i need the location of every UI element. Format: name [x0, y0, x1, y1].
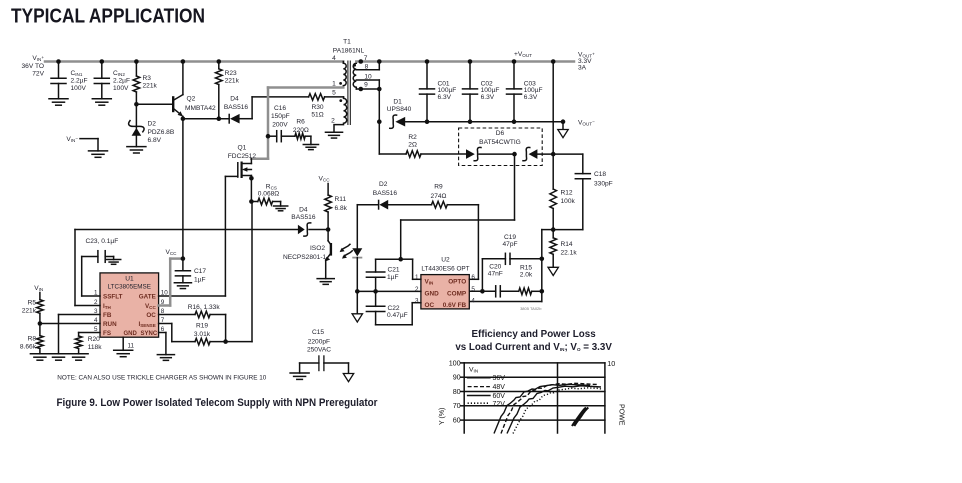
svg-text:GND: GND	[425, 290, 440, 297]
capacitor C16	[268, 135, 277, 137]
junction D1 node	[377, 119, 382, 124]
svg-text:GND: GND	[124, 331, 138, 337]
svg-text:R15: R15	[520, 265, 532, 272]
junction Q1 source	[249, 176, 254, 181]
ground D2	[127, 146, 146, 148]
svg-text:R11: R11	[335, 196, 347, 203]
junction CIN2	[100, 59, 105, 64]
svg-text:C17: C17	[194, 268, 206, 275]
svg-text:VIN: VIN	[34, 285, 43, 292]
junction C21 top node	[398, 257, 403, 262]
svg-text:221k: 221k	[143, 83, 158, 90]
resistor R19	[195, 338, 210, 345]
svg-text:10: 10	[607, 359, 615, 368]
svg-text:VCC: VCC	[165, 249, 177, 256]
svg-text:6.3V: 6.3V	[438, 94, 452, 101]
svg-text:1: 1	[332, 80, 336, 87]
svg-text:VCC: VCC	[318, 176, 330, 183]
capacitor C03	[512, 59, 517, 64]
wire Q1 source down	[250, 178, 252, 201]
svg-text:OC: OC	[425, 302, 435, 309]
svg-text:60: 60	[453, 416, 461, 425]
wire VCC pin (gray)	[159, 304, 171, 307]
svg-text:T1: T1	[343, 39, 351, 46]
junction C01 bottom	[425, 119, 430, 124]
diode D6 BAT54CWTIG dashed box	[459, 128, 543, 166]
svg-text:C18: C18	[594, 171, 606, 178]
junction pin8 rail	[377, 59, 382, 64]
svg-text:48V: 48V	[493, 384, 506, 391]
svg-text:C23, 0.1µF: C23, 0.1µF	[86, 238, 119, 245]
svg-text:60V: 60V	[493, 393, 506, 400]
svg-text:SYNC: SYNC	[141, 331, 158, 337]
svg-text:LTC3805EMSE: LTC3805EMSE	[108, 283, 151, 290]
junction C16 tap	[266, 134, 271, 139]
svg-text:D2: D2	[379, 181, 388, 188]
capacitor C19	[504, 253, 506, 264]
junction divider node	[551, 227, 556, 232]
resistor R20	[79, 332, 100, 334]
transformer T1 core	[347, 61, 349, 126]
capacitor C01	[425, 59, 430, 64]
ground CIN1	[49, 98, 68, 100]
svg-text:90: 90	[453, 373, 461, 382]
svg-text:BAS516: BAS516	[291, 214, 316, 221]
svg-text:6.3V: 6.3V	[524, 94, 538, 101]
svg-text:D1: D1	[393, 99, 402, 106]
svg-text:VIN: VIN	[425, 278, 435, 285]
svg-text:U1: U1	[125, 276, 134, 283]
svg-text:R9: R9	[434, 184, 443, 191]
resistor R12	[552, 154, 554, 189]
svg-text:C15: C15	[312, 329, 324, 336]
svg-text:C16: C16	[274, 105, 286, 112]
svg-text:+VOUT: +VOUT	[514, 51, 532, 58]
svg-text:R12: R12	[561, 190, 573, 197]
wire COMP node vertical	[481, 259, 483, 292]
resistor R15	[519, 288, 532, 295]
svg-text:C21: C21	[388, 267, 400, 274]
svg-text:0.47µF: 0.47µF	[387, 312, 408, 319]
resistor R16	[159, 314, 195, 316]
optocoupler ISO2 NECPS2801-1 LED	[356, 205, 358, 249]
svg-text:ISO2: ISO2	[310, 245, 325, 252]
wire VOUT+ sense down	[552, 62, 554, 155]
svg-text:BAS516: BAS516	[224, 104, 249, 111]
capacitor C20	[469, 290, 495, 292]
wire C19 row	[482, 258, 505, 260]
svg-text:100V: 100V	[71, 85, 87, 92]
svg-text:1µF: 1µF	[387, 274, 399, 281]
wire D6 center down to U2 side	[514, 154, 516, 220]
ground C15 secondary (open)	[343, 374, 353, 382]
transformer T1 secondary winding pins 7-9	[353, 62, 356, 90]
svg-text:RCS: RCS	[266, 183, 277, 190]
capacitor CIN2	[101, 62, 103, 79]
transistor Q2 MMBTA42	[182, 62, 184, 95]
svg-text:R14: R14	[561, 241, 573, 248]
svg-text:8.66k: 8.66k	[20, 343, 37, 350]
svg-text:6.8V: 6.8V	[148, 137, 162, 144]
ground FB	[49, 353, 68, 355]
T1 primary phase dot pin1	[339, 82, 342, 85]
wire T1 pin10 bracket	[356, 79, 379, 81]
capacitor C02	[468, 59, 473, 64]
ground R6	[303, 144, 318, 146]
ground VIN-	[89, 150, 108, 152]
svg-text:CIN1: CIN1	[71, 70, 83, 77]
capacitor C22	[375, 291, 377, 306]
ISO2 light arrows	[341, 244, 350, 250]
svg-text:C19: C19	[504, 234, 516, 241]
ground R20	[69, 353, 88, 355]
svg-text:MMBTA42: MMBTA42	[185, 105, 216, 112]
junction COMP node	[480, 289, 485, 294]
wire VOUT- rail	[427, 121, 563, 123]
graph power loss curve	[572, 408, 586, 427]
wire U1 GND pin 11	[122, 337, 124, 350]
svg-text:vs Load Current and VIN; VO =: vs Load Current and VIN; VO = 3.3V	[455, 342, 612, 353]
junction R23 top	[217, 59, 222, 64]
capacitor C17	[182, 259, 184, 271]
resistor R2	[378, 122, 380, 154]
svg-text:2.0k: 2.0k	[520, 272, 533, 279]
svg-text:SSFLT: SSFLT	[103, 293, 123, 300]
T1 secondary phase dot pin7	[353, 64, 356, 67]
junction CIN1	[56, 59, 61, 64]
capacitor C21	[376, 258, 401, 260]
svg-text:ISENSE: ISENSE	[138, 321, 155, 328]
wire T1 pin8 bracket	[356, 69, 379, 71]
svg-text:R3: R3	[143, 75, 152, 82]
junction Q2 base node	[134, 102, 139, 107]
svg-text:COMP: COMP	[447, 290, 467, 297]
svg-text:3A: 3A	[578, 64, 587, 71]
resistor R30	[252, 96, 309, 98]
svg-text:150pF: 150pF	[271, 113, 290, 120]
svg-text:51Ω: 51Ω	[311, 111, 323, 118]
wire VOUT+ rail	[356, 60, 574, 63]
svg-text:UPS840: UPS840	[387, 106, 412, 113]
svg-text:6.3V: 6.3V	[481, 94, 495, 101]
svg-text:11: 11	[128, 342, 135, 349]
svg-text:BAT54CWTIG: BAT54CWTIG	[479, 139, 521, 146]
junction RCS node	[249, 199, 254, 204]
svg-text:22.1k: 22.1k	[561, 249, 578, 256]
svg-text:Efficiency and Power Loss: Efficiency and Power Loss	[472, 329, 597, 340]
T1 primary phase dot pin5	[339, 99, 342, 102]
wire GATE to Q1	[159, 295, 226, 297]
svg-text:ITH: ITH	[103, 303, 112, 310]
op-amp U2 LT4430ES6	[421, 275, 469, 309]
wire T1 pin9	[356, 88, 379, 90]
svg-text:36V TO: 36V TO	[22, 63, 44, 70]
wire FB to ground	[59, 314, 101, 316]
junction C03 bottom	[512, 119, 517, 124]
svg-text:4: 4	[332, 55, 336, 62]
wire secondary return to D1	[378, 89, 380, 122]
resistor R14	[552, 230, 554, 238]
controller U1 LTC3805EMSE	[100, 273, 159, 337]
diode D6 left half	[466, 149, 475, 159]
wire LED ground (open)	[356, 291, 358, 313]
svg-text:RUN: RUN	[103, 321, 117, 328]
svg-text:2.2µF: 2.2µF	[71, 78, 88, 85]
svg-text:D6: D6	[496, 130, 505, 137]
graph efficiency curves	[494, 384, 590, 433]
wire ISENSE jog	[159, 323, 172, 325]
svg-text:10: 10	[364, 74, 372, 81]
svg-text:FS: FS	[103, 330, 111, 337]
svg-text:5: 5	[471, 286, 475, 293]
svg-text:47pF: 47pF	[502, 241, 517, 248]
junction D6 output	[551, 152, 556, 157]
svg-text:221k: 221k	[22, 308, 37, 315]
wire T1 pin 1 to Q1 drain (gray)	[268, 86, 343, 89]
graph frame and gridlines	[464, 362, 605, 364]
svg-text:3.01k: 3.01k	[194, 331, 211, 338]
svg-text:2200pF: 2200pF	[308, 339, 330, 346]
wire RUN	[40, 323, 100, 325]
svg-text:R23: R23	[225, 70, 237, 77]
svg-text:0.6V FB: 0.6V FB	[443, 302, 467, 309]
svg-text:C22: C22	[388, 305, 400, 312]
svg-text:LT4430ES6 OPT: LT4430ES6 OPT	[421, 265, 469, 272]
svg-text:R6: R6	[296, 119, 305, 126]
svg-text:8: 8	[365, 63, 369, 70]
svg-text:PDZ6.8B: PDZ6.8B	[148, 129, 175, 136]
junction pin10	[377, 87, 382, 92]
ground C23	[106, 259, 120, 261]
svg-text:CIN2: CIN2	[113, 70, 125, 77]
svg-text:80: 80	[453, 387, 461, 396]
wire GND row	[357, 290, 421, 292]
wire VIN- stub	[80, 138, 98, 140]
svg-text:D4: D4	[230, 95, 239, 102]
svg-text:BAS516: BAS516	[373, 190, 398, 197]
svg-text:OPTO: OPTO	[448, 278, 466, 285]
svg-text:1µF: 1µF	[194, 276, 206, 283]
svg-text:Figure 9. Low Power Isolated T: Figure 9. Low Power Isolated Telecom Sup…	[57, 397, 379, 409]
junction R3 top	[134, 59, 139, 64]
junction LED gnd node	[355, 289, 360, 294]
svg-text:OC: OC	[146, 312, 156, 319]
ground CIN2	[92, 98, 111, 100]
junction C02 bottom	[468, 119, 473, 124]
ground ISO2 emitter	[317, 278, 334, 280]
svg-text:220Ω: 220Ω	[293, 127, 309, 134]
ground SYNC	[157, 354, 174, 356]
svg-text:R16, 1.33k: R16, 1.33k	[188, 304, 221, 311]
ground R14 (open)	[548, 267, 558, 275]
junction D6 center	[512, 152, 517, 157]
svg-text:C20: C20	[489, 264, 501, 271]
svg-text:R5: R5	[28, 299, 37, 306]
junction Q2 emitter node	[181, 116, 186, 121]
junction C21 bottom	[373, 289, 378, 294]
ground RCS	[273, 205, 287, 207]
svg-text:R8: R8	[28, 335, 37, 342]
svg-text:3805 TA02b: 3805 TA02b	[520, 306, 542, 311]
ground C17	[174, 282, 191, 284]
svg-text:U2: U2	[441, 256, 450, 263]
wire sense line to RCS	[226, 341, 252, 343]
resistor R5	[39, 293, 41, 300]
svg-text:R2: R2	[408, 134, 417, 141]
svg-text:Y (%): Y (%)	[439, 408, 446, 425]
svg-text:9: 9	[364, 82, 368, 89]
wire U2 pin1 VIN	[401, 258, 413, 260]
wire Q2 emitter down to VCC node	[182, 119, 184, 259]
capacitor CIN1	[58, 62, 60, 79]
ground C15 primary	[290, 372, 309, 374]
junction C19 right	[540, 257, 545, 262]
svg-text:36V: 36V	[493, 375, 506, 382]
junction Q2 collector rail	[181, 59, 186, 64]
svg-text:VCC: VCC	[145, 303, 157, 310]
svg-text:100k: 100k	[561, 198, 576, 205]
svg-text:330pF: 330pF	[594, 180, 613, 187]
svg-text:200V: 200V	[272, 122, 288, 129]
junction ITH pullup node	[326, 227, 331, 232]
svg-text:250VAC: 250VAC	[307, 347, 331, 354]
junction pin7 rail	[359, 59, 364, 64]
resistor R3	[135, 62, 137, 77]
ground T1 pin 2	[325, 131, 342, 133]
resistor RCS	[258, 198, 273, 205]
junction pin9	[359, 87, 364, 92]
wire OPTO pin6 from R9	[469, 278, 478, 280]
svg-text:NECPS2801-1: NECPS2801-1	[283, 254, 327, 261]
svg-text:PA1861NL: PA1861NL	[333, 47, 365, 54]
junction VOUT+ sense	[551, 59, 556, 64]
svg-text:72V: 72V	[32, 71, 44, 78]
wire D4 up to R30	[251, 97, 253, 119]
svg-text:D4: D4	[299, 206, 308, 213]
junction R23 bottom	[217, 116, 222, 121]
diode D4 BAS516 (aux winding)	[228, 114, 230, 124]
resistor R6	[281, 135, 295, 137]
svg-text:221k: 221k	[225, 77, 240, 84]
svg-text:47nF: 47nF	[488, 271, 503, 278]
ground VOUT- (open)	[562, 122, 564, 130]
svg-text:R20: R20	[88, 336, 100, 343]
wire SYNC to ground	[159, 332, 166, 334]
svg-text:POWE: POWE	[618, 404, 625, 426]
svg-text:GATE: GATE	[139, 293, 156, 300]
resistor R8	[39, 324, 41, 336]
svg-text:VIN: VIN	[469, 367, 478, 374]
svg-text:2Ω: 2Ω	[408, 141, 417, 148]
wire FB bus to pin4	[541, 259, 543, 302]
svg-text:D2: D2	[148, 121, 157, 128]
svg-text:FB: FB	[103, 312, 112, 319]
svg-text:2: 2	[331, 117, 335, 124]
wire Q2 emitter to D4	[183, 118, 229, 120]
svg-text:0.068Ω: 0.068Ω	[258, 191, 280, 198]
svg-text:274Ω: 274Ω	[431, 193, 447, 200]
svg-text:6.8k: 6.8k	[335, 205, 348, 212]
wire FB jog from divider	[542, 229, 553, 231]
resistor R23	[218, 62, 220, 69]
ground R8	[30, 353, 49, 355]
svg-text:100V: 100V	[113, 85, 129, 92]
svg-text:Q2: Q2	[187, 96, 196, 103]
capacitor C18	[553, 153, 583, 155]
svg-text:R19: R19	[196, 322, 208, 329]
svg-text:118k: 118k	[88, 344, 103, 351]
junction VCC node	[181, 256, 186, 261]
junction R15 right	[540, 289, 545, 294]
svg-text:TYPICAL APPLICATION: TYPICAL APPLICATION	[11, 5, 205, 28]
resistor R9	[432, 201, 448, 208]
wire Q2 base	[136, 103, 172, 105]
junction RUN divider	[38, 321, 43, 326]
junction VOUT- node	[561, 119, 566, 124]
svg-text:NOTE: CAN ALSO USE TRICKLE CHA: NOTE: CAN ALSO USE TRICKLE CHARGER AS SH…	[57, 374, 266, 381]
svg-text:70: 70	[453, 401, 461, 410]
junction R19 node	[223, 339, 228, 344]
diode D2 zener PDZ6.8B	[135, 104, 137, 128]
svg-text:Q1: Q1	[238, 145, 247, 152]
svg-text:R30: R30	[311, 104, 323, 111]
svg-text:100: 100	[449, 358, 461, 367]
svg-text:4: 4	[471, 297, 475, 304]
svg-text:2.2µF: 2.2µF	[113, 78, 130, 85]
diode D6 right half	[523, 147, 530, 160]
svg-text:5: 5	[332, 90, 336, 97]
ground U1 GND	[114, 349, 133, 351]
diode D4 BAS516 (ITH)	[298, 225, 305, 235]
svg-text:72V: 72V	[493, 401, 506, 408]
wire input VIN+ rail	[45, 60, 343, 63]
wire ITH loop	[75, 305, 100, 307]
